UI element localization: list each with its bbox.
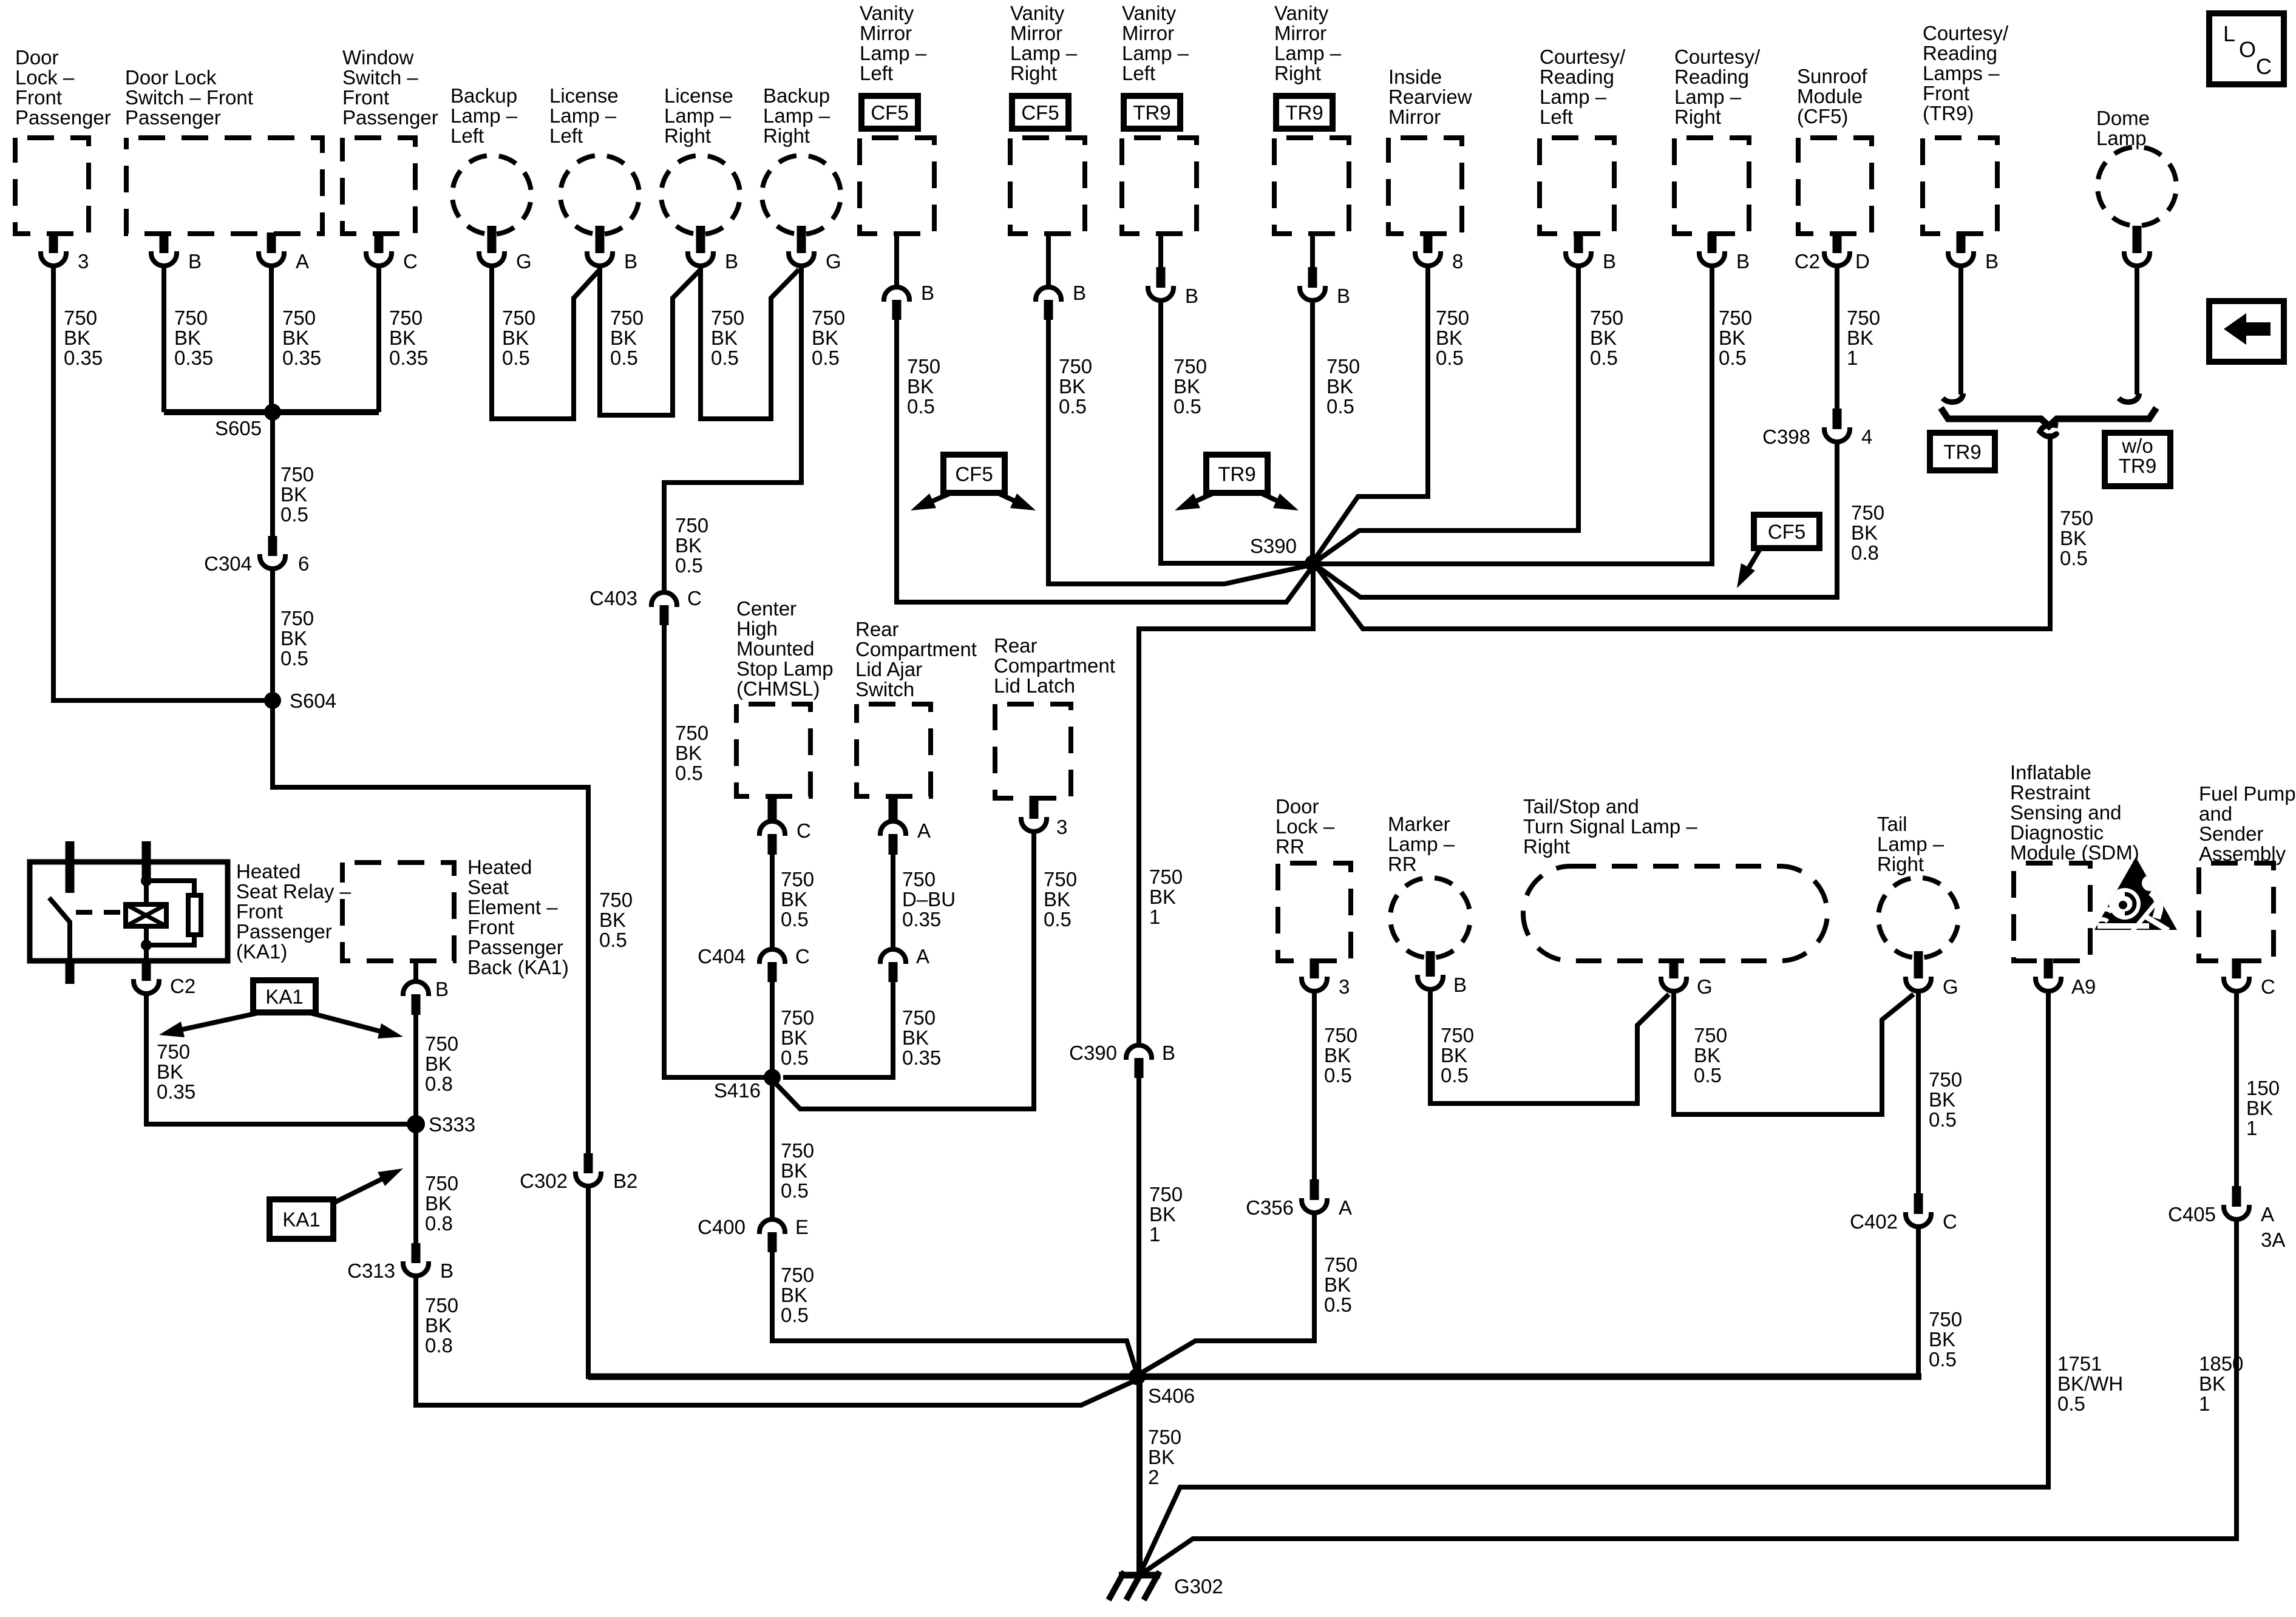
svg-text:B: B xyxy=(1162,1042,1175,1064)
svg-text:BK: BK xyxy=(1694,1044,1720,1066)
svg-text:Passenger: Passenger xyxy=(236,920,332,943)
wire label 750 BK 0.5 xyxy=(2060,507,2093,569)
svg-text:Reading: Reading xyxy=(1540,66,1614,88)
svg-text:Reading: Reading xyxy=(1923,42,1997,64)
component label Rear Compartment Lid Ajar Switch xyxy=(855,618,977,700)
svg-text:Compartment: Compartment xyxy=(994,654,1115,677)
svg-text:750: 750 xyxy=(1059,355,1092,378)
wire 750 BK 0.5 from C403 to S416 xyxy=(664,625,772,1077)
component label Rear Compartment Lid Latch xyxy=(994,634,1115,697)
wire 750 BK 0.35 pin B to S605 xyxy=(161,266,166,412)
svg-text:Courtesy/: Courtesy/ xyxy=(1674,46,1761,68)
svg-text:750: 750 xyxy=(174,307,208,329)
component Tail Lamp - Right (dashed circle) xyxy=(1878,878,1958,958)
wire label 750 BK 0.35 xyxy=(902,1006,941,1069)
svg-text:0.35: 0.35 xyxy=(157,1080,195,1103)
svg-text:Lamp –: Lamp – xyxy=(763,104,830,127)
svg-text:G: G xyxy=(516,250,532,273)
svg-text:0.5: 0.5 xyxy=(1324,1064,1352,1086)
svg-text:Stop Lamp: Stop Lamp xyxy=(736,657,834,680)
svg-text:G302: G302 xyxy=(1174,1575,1223,1598)
wire label 750 BK 0.5 xyxy=(1441,1024,1474,1086)
svg-text:TR9: TR9 xyxy=(1133,101,1170,124)
svg-text:BK: BK xyxy=(902,1026,929,1049)
svg-text:BK: BK xyxy=(1059,375,1085,398)
wire 750 BK 0.5 tail/stop to tail lamp right pin xyxy=(1674,991,1914,1114)
splice S416 xyxy=(764,1069,781,1086)
wire label 750 BK 0.5 xyxy=(907,355,940,418)
svg-text:Tail/Stop and: Tail/Stop and xyxy=(1523,795,1639,818)
svg-text:Lamp –: Lamp – xyxy=(1388,833,1455,855)
svg-text:Backup: Backup xyxy=(450,84,517,107)
svg-text:Passenger: Passenger xyxy=(15,106,111,129)
svg-text:750: 750 xyxy=(675,722,708,744)
svg-text:0.5: 0.5 xyxy=(1590,347,1618,369)
svg-text:BK: BK xyxy=(1149,886,1176,908)
svg-text:B: B xyxy=(440,1259,453,1282)
wire label 750 BK 0.35 xyxy=(174,307,213,369)
pin D of Sunroof Module connector C2 xyxy=(1833,232,1842,253)
relay coil box with X xyxy=(126,904,166,926)
svg-text:750: 750 xyxy=(1590,307,1623,329)
svg-text:750: 750 xyxy=(610,307,644,329)
svg-text:S333: S333 xyxy=(429,1113,475,1136)
component Vanity Mirror Lamp - Right TR9 (dashed box) xyxy=(1274,138,1349,234)
svg-text:0.35: 0.35 xyxy=(174,347,213,369)
component label Courtesy/Reading Lamp - Left xyxy=(1540,46,1626,128)
pin G of Tail/Stop Lamp xyxy=(1669,958,1679,978)
svg-text:C2: C2 xyxy=(170,975,195,997)
svg-text:150: 150 xyxy=(2246,1077,2280,1099)
wire 750 BK 0.5 from C304 to S604 xyxy=(270,569,275,700)
svg-text:Lamp –: Lamp – xyxy=(1540,86,1607,108)
wire from Vanity CF5-R box to connector B xyxy=(1046,231,1051,287)
svg-text:Right: Right xyxy=(664,124,711,147)
svg-text:0.5: 0.5 xyxy=(1929,1348,1957,1371)
svg-text:0.5: 0.5 xyxy=(1044,908,1072,931)
svg-text:750: 750 xyxy=(599,889,633,911)
component Heated Seat Element (dashed box) xyxy=(342,863,454,961)
inline connector B (Vanity TR9-R) xyxy=(1308,267,1317,288)
svg-text:2: 2 xyxy=(1148,1466,1159,1488)
svg-text:E: E xyxy=(795,1216,809,1238)
svg-text:A: A xyxy=(296,250,309,273)
wire label 750 BK 0.5 xyxy=(610,307,644,369)
svg-text:Vanity: Vanity xyxy=(1274,2,1329,24)
svg-text:750: 750 xyxy=(425,1172,458,1195)
svg-text:BK: BK xyxy=(1324,1273,1351,1296)
component Vanity Mirror Lamp - Left TR9 (dashed box) xyxy=(1122,138,1197,234)
svg-text:0.8: 0.8 xyxy=(425,1073,453,1095)
pin B of Door Lock Switch xyxy=(160,232,169,253)
svg-text:3A: 3A xyxy=(2261,1229,2285,1251)
relay resistor connection wires xyxy=(146,881,194,895)
svg-text:0.5: 0.5 xyxy=(781,1179,809,1202)
svg-text:Window: Window xyxy=(342,46,414,69)
component label Vanity Mirror Lamp - Left (CF5) xyxy=(860,2,927,84)
svg-text:0.5: 0.5 xyxy=(1059,395,1087,418)
relay pin stub bottom-right to C2 xyxy=(142,961,151,981)
svg-text:BK: BK xyxy=(1044,888,1070,910)
relay dashed actuator link xyxy=(76,910,124,915)
svg-text:0.8: 0.8 xyxy=(425,1212,453,1235)
wire label 750 BK 1 xyxy=(1847,307,1880,369)
wire 150 BK 1 fuel pump to C405 xyxy=(2234,991,2239,1187)
pin 8 of Inside Rearview Mirror xyxy=(1424,232,1433,253)
svg-text:Marker: Marker xyxy=(1388,813,1450,835)
component label License Lamp - Right xyxy=(664,84,733,147)
wire label 1850 BK 1 xyxy=(2199,1352,2243,1415)
wire 750 BK 0.5 Backup L to License L xyxy=(492,266,600,419)
wire label 750 BK 0.5 xyxy=(781,1264,814,1326)
svg-text:BK: BK xyxy=(280,627,307,649)
svg-text:A: A xyxy=(2261,1203,2274,1225)
splice S604 xyxy=(264,692,281,709)
svg-text:0.5: 0.5 xyxy=(1326,395,1354,418)
svg-text:750: 750 xyxy=(781,1139,814,1162)
wire label 750 BK 0.5 xyxy=(812,307,845,369)
splice S605 joining door-lock pins xyxy=(164,409,379,415)
svg-text:1: 1 xyxy=(2246,1117,2257,1139)
component Door Lock - RR (dashed box) xyxy=(1278,863,1351,961)
svg-text:BK/WH: BK/WH xyxy=(2057,1372,2123,1395)
svg-text:B: B xyxy=(188,250,202,273)
svg-text:C302: C302 xyxy=(520,1170,568,1192)
relay coil junction dot top xyxy=(141,875,152,886)
svg-text:750: 750 xyxy=(1324,1024,1357,1046)
wire from C302 to S406 main line xyxy=(586,1186,591,1379)
svg-text:Lamp –: Lamp – xyxy=(860,42,927,64)
svg-text:0.5: 0.5 xyxy=(2057,1392,2085,1415)
svg-text:750: 750 xyxy=(64,307,97,329)
svg-text:Heated: Heated xyxy=(467,856,532,878)
wire label 750 BK 0.5 xyxy=(502,307,535,369)
inline connector B (Vanity CF5-R) xyxy=(1036,287,1061,302)
svg-text:(KA1): (KA1) xyxy=(236,940,287,963)
svg-text:750: 750 xyxy=(781,1264,814,1286)
svg-text:Dome: Dome xyxy=(2096,107,2150,129)
component Window Switch - Front Passenger (dashed box) xyxy=(342,138,415,234)
svg-text:B2: B2 xyxy=(613,1170,637,1192)
svg-text:1: 1 xyxy=(1847,347,1858,369)
wire label 750 BK 0.8 xyxy=(1851,501,1884,564)
svg-text:Lamp: Lamp xyxy=(2096,127,2147,149)
pin B of Courtesy Lamp - Right xyxy=(1708,232,1717,253)
inline connector B (Vanity TR9-L) xyxy=(1156,267,1166,288)
svg-text:0.5: 0.5 xyxy=(711,347,739,369)
svg-text:BK: BK xyxy=(1441,1044,1467,1066)
wire from Vanity TR9-L box to connector B xyxy=(1158,231,1163,268)
inline connector C356 pin A xyxy=(1310,1179,1319,1200)
svg-text:A: A xyxy=(1339,1196,1352,1219)
svg-text:Mirror: Mirror xyxy=(860,22,912,44)
svg-text:B: B xyxy=(921,282,934,304)
svg-text:750: 750 xyxy=(1851,501,1884,524)
component label Heated Seat Relay - Front Passenger (KA1) xyxy=(236,860,352,963)
svg-text:750: 750 xyxy=(675,514,708,537)
component Courtesy/Reading Lamp - Right (dashed box) xyxy=(1674,138,1749,234)
svg-text:Front: Front xyxy=(15,86,62,109)
svg-text:w/o: w/o xyxy=(2121,435,2153,457)
svg-text:750: 750 xyxy=(1847,307,1880,329)
svg-text:750: 750 xyxy=(781,1006,814,1029)
svg-text:BK: BK xyxy=(675,534,702,557)
svg-text:Module: Module xyxy=(1797,85,1863,107)
svg-text:0.5: 0.5 xyxy=(781,1046,809,1069)
svg-text:High: High xyxy=(736,617,778,640)
svg-text:BK: BK xyxy=(1929,1088,1955,1111)
svg-text:Lid Ajar: Lid Ajar xyxy=(855,658,922,680)
svg-text:C400: C400 xyxy=(698,1216,746,1238)
svg-text:S604: S604 xyxy=(290,690,336,712)
svg-text:BK: BK xyxy=(781,1284,807,1306)
wire label 750 BK 0.8 xyxy=(425,1294,458,1357)
svg-text:1: 1 xyxy=(2199,1392,2210,1415)
wire from S604 to C302 xyxy=(273,700,588,1154)
wire courtesy-front down to brace xyxy=(1958,266,1963,395)
svg-text:750: 750 xyxy=(781,868,814,890)
ground G302 symbol xyxy=(1119,1572,1160,1579)
svg-text:Door: Door xyxy=(1275,795,1319,818)
component label Center High Mounted Stop Lamp (CHMSL) xyxy=(736,597,834,700)
svg-text:BK: BK xyxy=(675,742,702,764)
svg-text:0.5: 0.5 xyxy=(2060,547,2088,569)
wire 750 BK 0.5 courtesy-left to S390 xyxy=(1315,266,1578,562)
svg-text:G: G xyxy=(826,250,841,273)
pin B of License Lamp - Left xyxy=(596,226,605,253)
svg-text:BK: BK xyxy=(1929,1328,1955,1351)
wire from Vanity TR9-R box to connector B xyxy=(1310,231,1315,268)
svg-text:CF5: CF5 xyxy=(1768,521,1805,543)
svg-text:License: License xyxy=(664,84,733,107)
wire label 750 BK 0.5 xyxy=(1326,355,1360,418)
relay coil axis wire xyxy=(144,881,149,904)
svg-text:0.5: 0.5 xyxy=(1173,395,1201,418)
wire label 750 BK 0.5 xyxy=(781,868,814,931)
svg-text:Center: Center xyxy=(736,597,796,620)
svg-text:C: C xyxy=(796,819,811,842)
svg-text:O: O xyxy=(2239,37,2256,62)
svg-text:0.5: 0.5 xyxy=(675,554,703,577)
svg-text:750: 750 xyxy=(1149,866,1183,888)
component label Door Lock Switch - Front Passenger xyxy=(125,66,253,129)
svg-text:Lamp –: Lamp – xyxy=(450,104,518,127)
wire label 750 BK 0.5 xyxy=(1719,307,1752,369)
wire 750 BK 0.5 License L to License R xyxy=(600,266,701,415)
svg-text:Mirror: Mirror xyxy=(1122,22,1174,44)
pin G of Tail Lamp - Right xyxy=(1914,951,1923,978)
svg-text:BK: BK xyxy=(2199,1372,2226,1395)
wire label 750 BK 0.5 xyxy=(1436,307,1469,369)
svg-text:BK: BK xyxy=(1847,327,1873,349)
svg-text:Courtesy/: Courtesy/ xyxy=(1540,46,1626,68)
annotation box TR9 with arrows to vanity TR9 wires xyxy=(1206,455,1268,493)
svg-text:750: 750 xyxy=(902,868,936,890)
svg-text:750: 750 xyxy=(907,355,940,378)
svg-text:License: License xyxy=(549,84,619,107)
component label Courtesy/Reading Lamps - Front (TR9) xyxy=(1923,22,2009,124)
component Door Lock - Front Passenger (dashed box) xyxy=(15,138,89,234)
wire from Vanity CF5-L box to connector B xyxy=(894,231,899,287)
svg-text:0.5: 0.5 xyxy=(781,1304,809,1326)
component License Lamp - Left (dashed circle) xyxy=(560,155,639,234)
wire 750 BK 0.8 from C313 to S406 xyxy=(416,1276,1137,1405)
wire S390 down to C390 branch xyxy=(1139,563,1313,1044)
component label Inflatable Restraint Sensing and Diagnostic Module (SDM) xyxy=(2010,761,2139,864)
component Backup Lamp - Right (dashed circle) xyxy=(762,155,841,234)
wire 750 BK 0.5 from C356 to S406 xyxy=(1140,1213,1314,1374)
component Backup Lamp - Left (dashed circle) xyxy=(452,155,531,234)
inline connector C400 pin E xyxy=(759,1219,785,1234)
svg-text:Lamp –: Lamp – xyxy=(1674,86,1742,108)
svg-text:Rear: Rear xyxy=(855,618,899,640)
svg-text:Right: Right xyxy=(1010,62,1057,84)
component label Courtesy/Reading Lamp - Right xyxy=(1674,46,1761,128)
wire label 750 BK 0.5 xyxy=(599,889,633,951)
wire 750 BK 0.5 tail lamp right to C402 xyxy=(1916,991,1921,1195)
svg-text:3: 3 xyxy=(1056,816,1067,838)
wire label 750 BK 2 xyxy=(1148,1426,1181,1488)
annotation box CF5 with arrow to sunroof wire xyxy=(1754,515,1819,548)
pin B of Marker Lamp - RR xyxy=(1426,951,1435,977)
svg-text:0.8: 0.8 xyxy=(425,1334,453,1357)
svg-text:1: 1 xyxy=(1149,906,1160,928)
component label License Lamp - Left xyxy=(549,84,619,147)
svg-text:750: 750 xyxy=(812,307,845,329)
svg-text:Right: Right xyxy=(1274,62,1321,84)
svg-text:G: G xyxy=(1697,975,1713,998)
svg-text:Vanity: Vanity xyxy=(1122,2,1177,24)
wire 750 BK 0.5 Vanity TR9-R to S390 xyxy=(1310,300,1315,563)
svg-text:B: B xyxy=(1603,250,1616,273)
svg-text:Turn Signal Lamp –: Turn Signal Lamp – xyxy=(1523,815,1697,838)
annotation box KA1 with arrow to element wire xyxy=(270,1199,333,1239)
relay pin stub bottom-left xyxy=(66,961,75,984)
svg-text:B: B xyxy=(1736,250,1750,273)
pin B of License Lamp - Right xyxy=(696,226,705,253)
svg-text:0.5: 0.5 xyxy=(502,347,530,369)
svg-text:B: B xyxy=(1453,974,1467,996)
svg-text:Passenger: Passenger xyxy=(467,936,563,958)
svg-text:BK: BK xyxy=(1148,1446,1175,1468)
pin A of Lid Ajar Switch xyxy=(889,794,898,820)
component Rear Compartment Lid Ajar Switch (dashed box) xyxy=(857,704,931,796)
svg-text:Lamp –: Lamp – xyxy=(1274,42,1342,64)
svg-text:750: 750 xyxy=(1326,355,1360,378)
wire label 750 BK 0.5 xyxy=(1324,1024,1357,1086)
component label Door Lock - Front Passenger xyxy=(15,46,111,129)
wire 750 D-BU 0.35 Lid Ajar to C404 xyxy=(891,855,895,948)
svg-text:0.35: 0.35 xyxy=(64,347,103,369)
svg-text:Back (KA1): Back (KA1) xyxy=(467,956,569,978)
svg-text:750: 750 xyxy=(711,307,744,329)
wire label 750 BK 0.5 (tail/stop) xyxy=(1694,1024,1727,1086)
wire label 750 BK 0.5 xyxy=(1929,1308,1962,1371)
wire 750 BK 0.5 Lid Latch to S416 xyxy=(772,832,1034,1109)
svg-text:G: G xyxy=(1943,975,1958,998)
svg-text:Backup: Backup xyxy=(763,84,830,107)
svg-text:(CF5): (CF5) xyxy=(1797,105,1848,127)
navigation arrow box xyxy=(2209,301,2284,362)
wire 750 BK 0.5 Door Lock RR to C356 xyxy=(1312,991,1317,1181)
svg-text:4: 4 xyxy=(1861,425,1872,448)
svg-text:Lamp –: Lamp – xyxy=(1877,833,1944,855)
wire 750 BK 0.5 Vanity TR9-L to S390 xyxy=(1161,300,1305,563)
svg-text:Inflatable: Inflatable xyxy=(2010,761,2091,784)
svg-text:RR: RR xyxy=(1275,835,1305,858)
svg-text:C: C xyxy=(1943,1210,1957,1233)
svg-text:750: 750 xyxy=(425,1032,458,1055)
svg-text:KA1: KA1 xyxy=(265,986,303,1008)
connector C2 of relay xyxy=(134,979,159,994)
svg-text:BK: BK xyxy=(174,327,201,349)
wire 750 BK 0.5 from brace to S390 xyxy=(1316,433,2050,629)
inline connector C313 pin B xyxy=(412,1243,421,1263)
svg-text:750: 750 xyxy=(1044,868,1077,890)
wire 750 BK 1 from C390 to S406 xyxy=(1136,1078,1141,1377)
svg-text:Front: Front xyxy=(342,86,389,109)
svg-text:BK: BK xyxy=(425,1192,452,1215)
svg-text:B: B xyxy=(435,978,449,1000)
component Marker Lamp - RR (dashed circle) xyxy=(1390,878,1470,958)
svg-text:C403: C403 xyxy=(589,587,637,609)
wire label 750 BK 0.5 xyxy=(1173,355,1207,418)
pin C of Window Switch xyxy=(375,232,384,253)
svg-text:0.5: 0.5 xyxy=(1324,1293,1352,1316)
svg-text:0.5: 0.5 xyxy=(1436,347,1464,369)
svg-text:Left: Left xyxy=(1540,106,1573,128)
svg-text:750: 750 xyxy=(1441,1024,1474,1046)
inline connector C405 pin A 3A xyxy=(2232,1186,2241,1207)
component SDM (dashed box) xyxy=(2014,863,2090,961)
svg-text:Element –: Element – xyxy=(467,896,558,918)
svg-text:0.35: 0.35 xyxy=(389,347,428,369)
svg-text:A9: A9 xyxy=(2071,975,2096,998)
wire 750 BK 0.5 marker lamp to tail/stop pin xyxy=(1430,989,1669,1103)
wire 750 BK 0.5 from C404 to S416 xyxy=(770,982,775,1077)
wire end hook (dome) xyxy=(2119,393,2139,402)
svg-text:BK: BK xyxy=(64,327,90,349)
svg-text:0.5: 0.5 xyxy=(781,908,809,931)
wire 750 BK 0.8 from S333 to C313 xyxy=(413,1124,418,1244)
svg-text:Switch: Switch xyxy=(855,678,914,700)
wire 750 BK 0.5 from S605 to C304 xyxy=(270,412,275,537)
pin of Dome Lamp xyxy=(2133,226,2142,253)
relay pin stub top-right (coil) xyxy=(142,841,151,878)
wire label 750 BK 0.5 xyxy=(280,607,314,670)
svg-text:0.5: 0.5 xyxy=(907,395,935,418)
wire 750 BK 0.5 Vanity CF5-L to S390 xyxy=(897,320,1313,602)
svg-text:BK: BK xyxy=(425,1053,452,1075)
connector badge CF5 xyxy=(1012,96,1068,129)
component label Dome Lamp xyxy=(2096,107,2150,149)
svg-text:750: 750 xyxy=(280,463,314,486)
svg-text:750: 750 xyxy=(1694,1024,1727,1046)
inline connector C390 pin B xyxy=(1126,1045,1152,1060)
svg-text:Lock –: Lock – xyxy=(15,66,75,89)
svg-text:Rearview: Rearview xyxy=(1388,86,1472,108)
svg-text:750: 750 xyxy=(1324,1253,1357,1276)
component label Tail Lamp - Right xyxy=(1877,813,1944,875)
svg-text:Left: Left xyxy=(1122,62,1155,84)
svg-text:BK: BK xyxy=(282,327,309,349)
svg-text:BK: BK xyxy=(157,1060,183,1083)
wire label 150 BK 1 xyxy=(2246,1077,2280,1139)
svg-text:Lamp –: Lamp – xyxy=(549,104,617,127)
inline connector C403 pin C xyxy=(651,592,677,607)
wire 750 BK 0.35 pin A to S605 xyxy=(269,266,274,412)
svg-text:Vanity: Vanity xyxy=(860,2,914,24)
